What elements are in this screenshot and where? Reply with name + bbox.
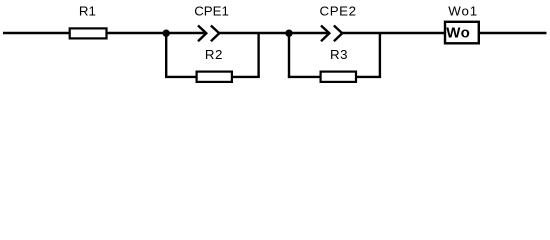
svg-text:Wo1: Wo1 xyxy=(448,4,478,19)
svg-text:R2: R2 xyxy=(205,47,223,62)
svg-text:Wo: Wo xyxy=(446,24,470,41)
svg-text:R3: R3 xyxy=(330,47,348,62)
svg-text:CPE2: CPE2 xyxy=(320,4,357,19)
svg-text:CPE1: CPE1 xyxy=(194,4,229,19)
svg-text:R1: R1 xyxy=(79,4,96,19)
